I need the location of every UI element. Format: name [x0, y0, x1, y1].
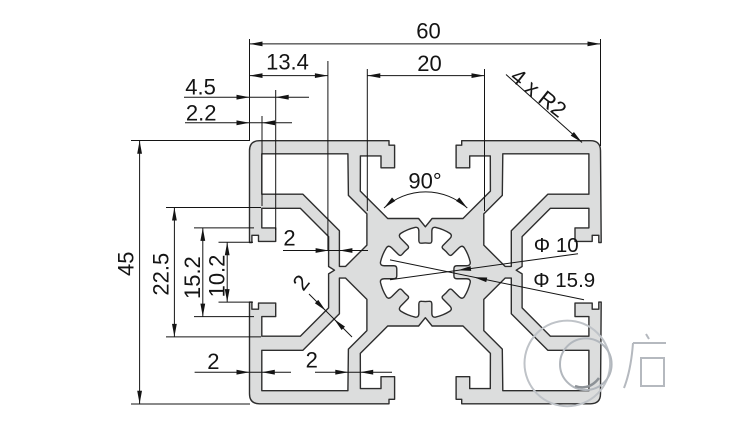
aluminium extrusion profile cross-section: outer shell with four T-slots, four corner chambers and central gear-shaped bore	[250, 141, 602, 404]
dimension 13.4: left edge to web, dim line and extension line	[250, 50, 328, 250]
svg-text:Φ 15.9: Φ 15.9	[533, 269, 595, 292]
dimension diameter 15.9: leader line through gear hole	[390, 260, 595, 300]
dimension 2.2: left wall thickness, outside arrows	[185, 101, 292, 206]
svg-text:2: 2	[283, 226, 295, 251]
dimension 15.2: across slot lips, vertical dim line	[180, 228, 254, 317]
svg-text:4 x R2: 4 x R2	[506, 63, 571, 122]
svg-text:2: 2	[207, 349, 219, 374]
dimension 45: overall height, vertical dim line with extension lines	[114, 141, 250, 405]
svg-text:15.2: 15.2	[180, 256, 205, 299]
svg-text:Φ 10: Φ 10	[534, 234, 579, 257]
dimension 2: vertical web thickness, outside arrows	[283, 226, 368, 253]
watermark: outer circle of logo	[525, 321, 611, 407]
svg-text:60: 60	[416, 19, 440, 44]
dimension 2: bottom slot web thickness, outside arrows	[306, 348, 392, 375]
svg-text:13.4: 13.4	[266, 50, 309, 75]
svg-text:2: 2	[306, 348, 318, 373]
svg-text:2: 2	[288, 270, 315, 295]
svg-text:22.5: 22.5	[148, 253, 173, 296]
dimension 4.5: left edge to slot lip tip, outside arrows	[184, 74, 309, 230]
dimension 60: overall width, dim line with extension lines	[250, 19, 601, 146]
svg-text:2.2: 2.2	[186, 101, 217, 126]
svg-text:4.5: 4.5	[185, 74, 216, 99]
watermark: inner circle of logo	[560, 338, 612, 390]
svg-text:90°: 90°	[408, 169, 441, 194]
dimension diameter 10: leader line through gear hole	[390, 234, 579, 280]
dimension 2: diagonal wall thickness, rotated with diagonal leader	[288, 270, 352, 337]
watermark: Chinese character qi drawn with strokes	[624, 334, 666, 388]
dimension 4 x R2: corner radius leader with rotated text	[506, 63, 582, 142]
svg-text:45: 45	[114, 251, 139, 275]
dimension 10.2: side slot opening, vertical dim line	[204, 242, 253, 302]
watermark: crescent stroke of logo	[575, 378, 599, 387]
dimension 2: bottom left wall thickness, outside arrows	[195, 349, 291, 374]
svg-text:10.2: 10.2	[204, 255, 229, 298]
dimension 90 degrees: V-groove angle, arc with arrowheads	[384, 169, 467, 208]
dimension 22.5: side slot cavity height, vertical dim line	[148, 208, 261, 337]
dimension 20: core width, dim line with extension lines	[367, 51, 484, 211]
svg-text:20: 20	[417, 51, 441, 76]
